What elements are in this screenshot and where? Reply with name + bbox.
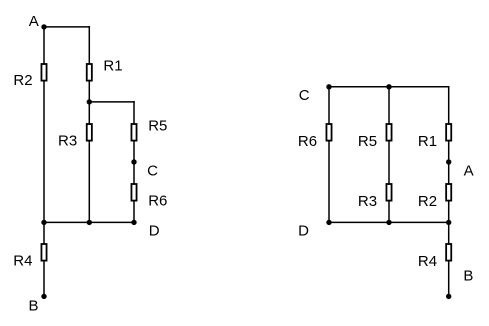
svg-text:R2: R2: [418, 193, 437, 210]
resistor R2 (left circuit): [41, 64, 46, 81]
wire A to top corner (left circuit): [44, 26, 89, 28]
resistor R6 (right circuit): [326, 124, 331, 141]
svg-text:B: B: [463, 268, 473, 285]
junction bottom-middle node (left circuit): [87, 220, 92, 225]
junction node (left circuit, R1/R3/R5 tee): [87, 99, 92, 104]
svg-text:R5: R5: [358, 133, 377, 150]
svg-text:C: C: [147, 162, 158, 179]
svg-text:A: A: [464, 163, 474, 180]
node B (right circuit): [446, 294, 451, 299]
svg-text:R1: R1: [418, 133, 437, 150]
wire bottom rail left circuit: [44, 221, 134, 223]
svg-text:R6: R6: [148, 192, 167, 209]
resistor R3 (right circuit): [386, 184, 391, 201]
junction bottom-right node (right circuit): [446, 220, 451, 225]
wire middle branch right circuit through R5 and R3: [388, 87, 390, 223]
wire middle branch down through R1 and R3: [88, 27, 90, 223]
svg-text:R6: R6: [298, 133, 317, 150]
resistor R4 (right circuit): [446, 244, 451, 261]
node C (left circuit): [131, 159, 136, 164]
svg-text:R4: R4: [418, 253, 437, 270]
resistor R6 (left circuit): [131, 184, 136, 201]
resistor R2 (right circuit): [446, 184, 451, 201]
resistor R5 (left circuit): [131, 124, 136, 141]
wire junction to right branch corner: [89, 101, 134, 103]
svg-text:D: D: [298, 222, 309, 239]
svg-text:R4: R4: [13, 252, 32, 269]
node D (left circuit): [131, 220, 136, 225]
svg-text:R2: R2: [13, 72, 32, 89]
wire bottom rail right circuit: [329, 221, 449, 223]
resistor R1 (right circuit): [446, 124, 451, 141]
svg-text:R3: R3: [358, 193, 377, 210]
svg-text:C: C: [299, 87, 310, 104]
wire top rail right circuit: [329, 86, 449, 88]
junction bottom-left node (left circuit): [41, 220, 46, 225]
wire left branch A down through R2 to bottom node: [43, 27, 45, 223]
junction bottom-middle node (right circuit): [386, 220, 391, 225]
node D (right circuit): [326, 220, 331, 225]
wire bottom node down through R4 to B: [43, 222, 45, 296]
wire bottom node down through R4 to B (right circuit): [448, 222, 450, 296]
node A (right circuit): [446, 159, 451, 164]
svg-text:R1: R1: [103, 57, 122, 74]
wire right branch right circuit through R1, node A, R2: [448, 87, 450, 223]
svg-text:A: A: [29, 13, 39, 30]
svg-text:R3: R3: [58, 132, 77, 149]
wire right branch down through R5, node C, R6: [133, 102, 135, 222]
node C (right circuit): [326, 84, 331, 89]
wire left branch right circuit through R6: [328, 87, 330, 223]
resistor R1 (left circuit): [87, 64, 92, 81]
svg-text:D: D: [149, 223, 160, 240]
node B (left circuit): [41, 294, 46, 299]
resistor R4 (left circuit): [41, 244, 46, 261]
resistor R3 (left circuit): [87, 124, 92, 141]
resistor R5 (right circuit): [386, 124, 391, 141]
node A (left circuit): [41, 24, 46, 29]
svg-text:B: B: [29, 298, 39, 315]
svg-text:R5: R5: [148, 118, 167, 135]
junction top-middle node (right circuit): [386, 84, 391, 89]
